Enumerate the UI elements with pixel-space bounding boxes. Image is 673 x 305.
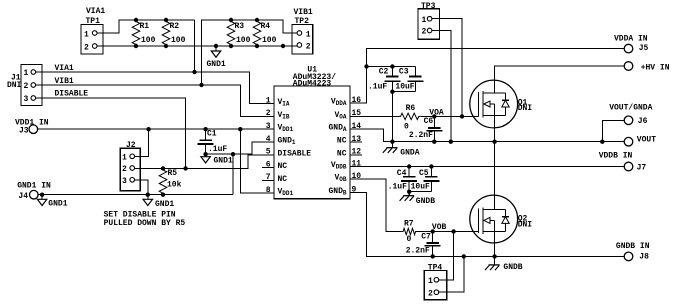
junction R4 top (255, 18, 259, 22)
ground GND1 below J2.3 (143, 195, 174, 209)
svg-text:R1: R1 (140, 22, 150, 31)
svg-text:C5: C5 (419, 169, 429, 178)
svg-text:DISABLE: DISABLE (278, 149, 312, 158)
svg-text:0: 0 (404, 123, 409, 132)
wire TP4 pin2 up to GNDB rail (439, 256, 464, 292)
svg-text:DDA: DDA (336, 100, 347, 107)
wire VOA to Q1 gate (420, 115, 478, 117)
svg-text:DNI: DNI (518, 104, 533, 113)
pin 6 U1 (262, 160, 287, 171)
junction J6 branch on rail (600, 140, 604, 144)
junction TP4.2 on GNDB rail (462, 254, 466, 258)
pin 4 U1 (262, 135, 296, 146)
junction Q1 source / Q2 drain (492, 140, 496, 144)
terminal VOUT (624, 136, 656, 146)
capacitor C5 (411, 167, 440, 192)
svg-text:B: B (343, 190, 347, 197)
wire TP1 pin1 to R1/R2 top rail (97, 20, 195, 33)
svg-text:1: 1 (292, 139, 296, 146)
svg-text:2.2nF: 2.2nF (409, 131, 433, 140)
pin 15 U1 (335, 109, 363, 120)
svg-text:.1uF: .1uF (388, 183, 407, 192)
note text (104, 210, 186, 228)
junction TP2 pin2 wire (281, 44, 285, 48)
pin 5 U1 (262, 148, 311, 159)
wire VDDA pin16 up and rail to J5 (362, 49, 624, 103)
svg-text:C7: C7 (421, 233, 431, 242)
svg-text:GND1: GND1 (214, 157, 233, 166)
svg-text:11: 11 (352, 159, 362, 168)
junction C1 bottom / GND1 (203, 152, 207, 156)
svg-text:A: A (343, 126, 347, 133)
svg-text:J7: J7 (637, 163, 647, 172)
svg-text:GNDA: GNDA (400, 148, 419, 157)
test point TP3 (418, 2, 440, 39)
junction R1 bottom (134, 44, 138, 48)
wire R3/R4 top rail (202, 20, 298, 85)
svg-text:10uF: 10uF (411, 183, 430, 192)
junction DISABLE row (183, 166, 187, 170)
svg-text:NC: NC (337, 137, 347, 146)
junction C4 bottom (407, 190, 411, 194)
svg-text:C1: C1 (207, 130, 217, 139)
junction VIA1 at x194.5 (192, 70, 196, 74)
junction C7 bottom (431, 254, 435, 258)
svg-text:7: 7 (266, 173, 271, 182)
wire C4/C5 bottom join (409, 191, 431, 193)
junction R2 bottom (164, 44, 168, 48)
capacitor C4 (388, 167, 418, 192)
terminal J4 GND1 IN (17, 181, 51, 201)
terminal J7 VDDB IN (599, 152, 647, 173)
svg-text:2: 2 (306, 42, 311, 51)
svg-text:6: 6 (266, 160, 271, 169)
svg-text:C3: C3 (399, 68, 409, 77)
junction TP3.2 on GNDA rail (449, 140, 453, 144)
wire GNDB pin9 down and rail to J8 (350, 193, 624, 257)
svg-text:VDDB IN: VDDB IN (599, 152, 633, 161)
svg-text:TP4: TP4 (428, 264, 443, 273)
test point TP4 (424, 264, 446, 300)
svg-text:J5: J5 (639, 44, 649, 53)
pin 16 U1 (331, 96, 362, 107)
svg-text:2: 2 (24, 82, 29, 91)
svg-text:0: 0 (407, 235, 412, 244)
wire VDD1 J3 to U1 pin3 (38, 128, 274, 130)
svg-text:GNDB: GNDB (503, 263, 522, 272)
svg-text:1: 1 (24, 69, 29, 78)
svg-text:J6: J6 (638, 117, 648, 126)
svg-text:R7: R7 (404, 220, 414, 229)
svg-text:C2: C2 (379, 68, 389, 77)
resistor R6 (362, 104, 420, 132)
svg-text:100: 100 (171, 36, 186, 45)
wire R1/R2 rail down to VIA1 (194, 20, 196, 72)
test point TP2 (292, 8, 313, 54)
svg-text:12: 12 (352, 148, 362, 157)
svg-text:VIA1: VIA1 (55, 64, 74, 73)
svg-text:GNDB IN: GNDB IN (616, 242, 650, 251)
wire VDD1 branch to U1 pin8 (240, 129, 274, 193)
svg-text:+HV IN: +HV IN (641, 63, 670, 72)
resistor R4 (253, 20, 276, 46)
junction R1 top (134, 18, 138, 22)
terminal J8 GNDB IN (616, 242, 650, 262)
svg-text:R6: R6 (406, 104, 416, 113)
svg-text:NC: NC (278, 175, 288, 184)
junction R3 top (229, 18, 233, 22)
wire VOB pin10 down to R7 (362, 179, 402, 232)
svg-text:VDDA IN: VDDA IN (614, 35, 648, 44)
svg-text:2: 2 (422, 28, 427, 37)
pin 12 U1 (337, 148, 362, 159)
svg-text:TP2: TP2 (295, 17, 310, 26)
ground GNDB at Q2 source (485, 256, 523, 272)
svg-text:GNDB: GNDB (416, 197, 435, 206)
wire Q1 source to rail (494, 116, 496, 142)
svg-text:15: 15 (352, 109, 362, 118)
svg-text:C6: C6 (424, 117, 434, 126)
wire J2 pin3 to GND1 rail (135, 180, 148, 195)
svg-text:J2: J2 (126, 141, 136, 150)
terminal +HV IN (624, 62, 670, 73)
svg-text:13: 13 (352, 135, 362, 144)
wire TP4 pin1 up to VOB (439, 232, 454, 280)
svg-text:TP3: TP3 (421, 2, 436, 11)
wire TP3 pin1 down to VOA (432, 19, 462, 117)
capacitor C6 (409, 116, 442, 141)
connector J1 (7, 65, 42, 106)
transistor Q1 (470, 80, 533, 128)
svg-text:VOUT: VOUT (637, 136, 656, 145)
svg-text:3: 3 (24, 95, 29, 104)
wire VDDB pin11 rail to J7 (362, 166, 624, 168)
svg-text:R4: R4 (261, 22, 271, 31)
junction VOB/C7 (431, 229, 435, 233)
junction C2 bottom (390, 90, 394, 94)
pin 2 U1 (262, 109, 290, 120)
ground GND1 below C1 (201, 154, 233, 165)
junction VOA/TP3.1 (460, 114, 464, 118)
svg-text:VOUT/GNDA: VOUT/GNDA (609, 103, 652, 112)
svg-text:R3: R3 (235, 22, 245, 31)
terminal J3 VDD1 IN (15, 119, 49, 136)
resistor R7 (402, 220, 418, 245)
svg-text:R5: R5 (168, 169, 178, 178)
junction GNDA symbol (390, 140, 394, 144)
pin 7 U1 (262, 173, 287, 184)
svg-text:2.2nF: 2.2nF (406, 247, 430, 256)
svg-text:100: 100 (236, 36, 251, 45)
capacitor C3 (395, 67, 423, 92)
svg-text:DISABLE: DISABLE (55, 89, 89, 98)
svg-text:GND1: GND1 (155, 200, 174, 209)
op-amp U1 ADuM3223/ADuM4223 body (274, 65, 350, 198)
svg-text:J8: J8 (639, 253, 649, 262)
svg-text:OB: OB (339, 176, 347, 183)
junction GND1 row (231, 152, 235, 156)
svg-text:1: 1 (428, 277, 433, 286)
junction VOA/C6 (432, 114, 436, 118)
svg-text:10k: 10k (167, 181, 182, 190)
svg-text:8: 8 (266, 186, 271, 195)
svg-text:GND1 IN: GND1 IN (17, 181, 51, 190)
junction C5 top (429, 164, 433, 168)
junction VOB/TP4.1 (451, 229, 455, 233)
resistor R3 (227, 20, 250, 46)
wire J2 pin2 / R5 / DISABLE row to U1 pin5 (135, 155, 275, 169)
wire VIA1 J1.1 to U1 pin1 (36, 72, 274, 104)
resistor R1 (132, 20, 155, 46)
svg-text:100: 100 (141, 36, 156, 45)
wire GND1 bottom rail TP1 pin2 to TP2 pin2 (97, 45, 297, 47)
svg-text:SET DISABLE PIN: SET DISABLE PIN (104, 210, 176, 219)
svg-text:1: 1 (422, 16, 427, 25)
capacitor C2 (368, 67, 400, 92)
svg-text:100: 100 (262, 36, 277, 45)
svg-text:GND1: GND1 (207, 60, 226, 69)
junction R3 bottom (229, 44, 233, 48)
svg-text:GND: GND (329, 187, 344, 196)
wire GND1 C1 row to U1 pin4 (206, 142, 274, 154)
capacitor C7 (406, 232, 441, 257)
svg-text:5: 5 (266, 148, 271, 157)
svg-text:3: 3 (266, 122, 271, 131)
svg-text:DNI: DNI (7, 81, 22, 90)
capacitor C1 (198, 129, 228, 154)
junction R2 top (164, 18, 168, 22)
svg-text:DDB: DDB (336, 164, 347, 171)
svg-text:3: 3 (122, 177, 127, 186)
junction R5 top (161, 166, 165, 170)
svg-text:2: 2 (428, 289, 433, 298)
svg-text:10: 10 (352, 172, 362, 181)
junction Q2 source (492, 254, 496, 258)
junction C1 top (203, 127, 207, 131)
wire VOB to Q2 gate (417, 231, 478, 233)
ground GND1 near J4 (37, 195, 67, 209)
junction VIB1 at x201.5 (199, 83, 203, 87)
svg-text:J4: J4 (18, 192, 28, 201)
terminal J6 VOUT/GNDA (609, 103, 652, 126)
svg-text:R2: R2 (170, 22, 180, 31)
transistor Q2 (470, 195, 533, 243)
svg-text:NC: NC (337, 149, 347, 158)
svg-text:OA: OA (339, 113, 347, 120)
svg-text:DD1: DD1 (282, 126, 293, 133)
junction VDD1/J2.1 (146, 127, 150, 131)
svg-text:C4: C4 (397, 169, 407, 178)
wire Q2 source down to GNDB rail (494, 232, 496, 257)
wire C2/C3 top rail (367, 66, 416, 68)
ground GNDB below C4 (400, 192, 436, 207)
svg-text:1: 1 (122, 154, 127, 163)
svg-text:ADuM4223: ADuM4223 (293, 80, 332, 89)
svg-text:2: 2 (122, 165, 127, 174)
svg-text:1: 1 (306, 30, 311, 39)
svg-text:14: 14 (352, 122, 362, 131)
wire Q1 drain to +HV (495, 66, 625, 93)
wire J6 branch (602, 120, 624, 141)
junction R5 bottom (161, 193, 165, 197)
svg-text:IB: IB (282, 113, 290, 120)
resistor R2 (162, 20, 185, 46)
svg-text:TP1: TP1 (86, 17, 101, 26)
svg-text:.1uF: .1uF (368, 83, 387, 92)
junction C6 bottom (432, 140, 436, 144)
svg-text:PULLED DOWN BY R5: PULLED DOWN BY R5 (104, 219, 186, 228)
wire TP3 pin2 down to GNDA rail (432, 31, 451, 142)
connector J2 (120, 141, 140, 191)
svg-text:2: 2 (84, 43, 89, 52)
pin 1 U1 (262, 96, 290, 107)
svg-text:10uF: 10uF (395, 83, 414, 92)
svg-text:J3: J3 (19, 126, 29, 135)
ground GND1 on bottom rail (207, 46, 226, 69)
terminal J5 VDDA IN (614, 35, 649, 53)
svg-text:.1uF: .1uF (208, 145, 227, 154)
junction GND1 stem (214, 44, 218, 48)
wire GND1 rail J4 to riser (38, 194, 233, 196)
svg-text:1: 1 (266, 96, 271, 105)
junction J2.3/GND1 rail (146, 193, 150, 197)
svg-text:1: 1 (84, 30, 89, 39)
svg-text:2: 2 (266, 109, 271, 118)
pin 9 U1 (329, 185, 363, 196)
svg-text:VIB1: VIB1 (55, 77, 74, 86)
wire C2/C3 bottom join (392, 91, 415, 93)
pin 3 U1 (262, 122, 294, 133)
junction VDD1/pin8 (238, 127, 242, 131)
svg-text:IA: IA (282, 101, 290, 108)
svg-text:VIA1: VIA1 (86, 7, 105, 16)
ground GNDA (383, 142, 420, 158)
pin 8 U1 (262, 186, 294, 197)
wire C2 ground drop to GNDA rail (391, 92, 393, 142)
svg-text:4: 4 (266, 135, 271, 144)
junction C2 top (390, 64, 394, 68)
svg-text:NC: NC (278, 162, 288, 171)
wire GNDA pin14 to rail (362, 129, 624, 142)
wire GND1 drop to bottom rail (232, 154, 234, 195)
junction C4 top (407, 164, 411, 168)
pin 13 U1 (337, 135, 362, 146)
pin 11 U1 (331, 159, 362, 170)
wire VIB1 J1.2 to U1 pin2 (36, 85, 274, 116)
pin 10 U1 (335, 172, 363, 183)
junction VDDA / C2C3 rail (364, 64, 368, 68)
svg-text:DD1: DD1 (282, 190, 293, 197)
junction GND1 near J4 (40, 193, 44, 197)
svg-text:16: 16 (352, 96, 362, 105)
junction R4 bottom (255, 44, 259, 48)
pin 14 U1 (329, 122, 363, 133)
wire VDD1 branch to J2 pin1 (135, 129, 149, 156)
svg-text:DNI: DNI (518, 221, 533, 230)
wire DISABLE J1.3 down to R5 row (36, 98, 186, 168)
test point TP1 (81, 7, 105, 54)
svg-text:VIB1: VIB1 (294, 8, 313, 17)
svg-text:GND: GND (278, 137, 293, 146)
svg-text:GND: GND (329, 124, 344, 133)
wire Q2 drain up to rail (494, 142, 496, 210)
svg-text:GND1: GND1 (48, 199, 67, 208)
resistor R5 (159, 168, 181, 194)
